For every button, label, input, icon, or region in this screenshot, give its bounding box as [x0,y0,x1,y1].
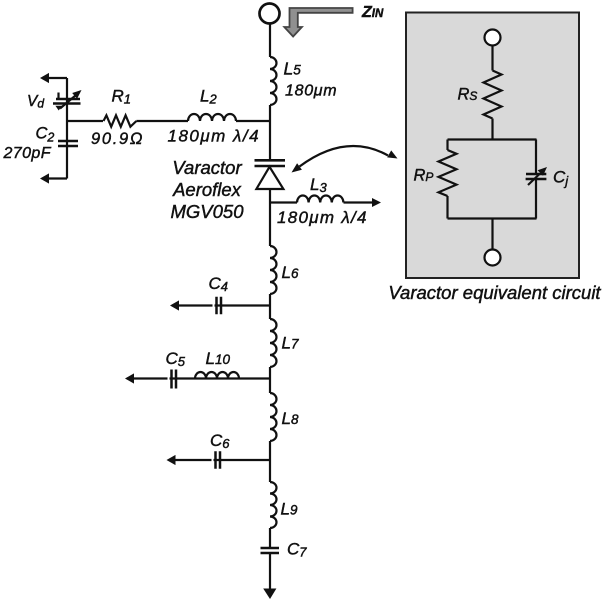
svg-text:L6: L6 [282,263,299,282]
svg-text:90.9Ω: 90.9Ω [91,130,144,148]
svg-text:RP: RP [414,167,434,185]
svg-text:180μm λ/4: 180μm λ/4 [168,127,261,146]
svg-text:MGV050: MGV050 [170,201,244,222]
svg-text:180μm λ/4: 180μm λ/4 [277,208,368,227]
svg-text:Varactor: Varactor [172,157,242,178]
svg-text:Varactor equivalent circuit: Varactor equivalent circuit [388,282,601,303]
svg-text:Vd: Vd [27,93,44,111]
svg-text:L7: L7 [282,334,299,353]
svg-text:L9: L9 [281,500,298,519]
svg-text:L10: L10 [206,349,231,368]
svg-text:Aeroflex: Aeroflex [172,179,242,200]
svg-text:180μm: 180μm [285,83,337,100]
svg-text:RS: RS [458,86,478,104]
svg-text:270pF: 270pF [3,145,52,162]
svg-text:L8: L8 [282,409,299,428]
